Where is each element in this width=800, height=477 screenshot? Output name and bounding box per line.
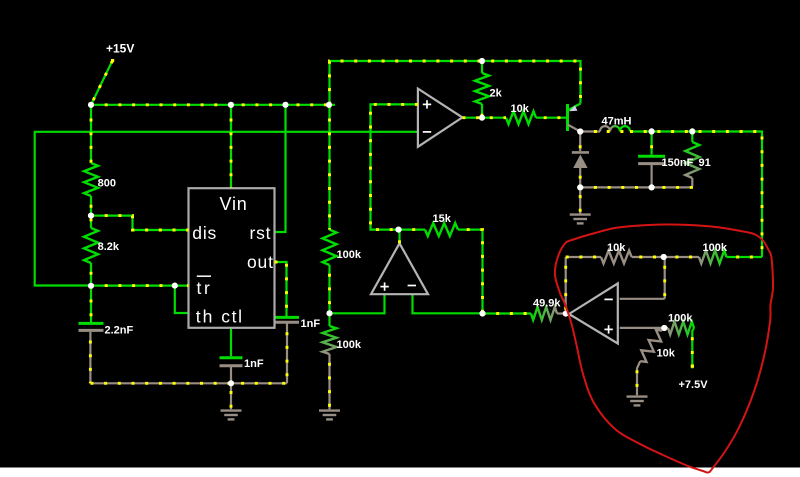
svg-text:th: th (196, 307, 215, 327)
svg-text:91: 91 (699, 157, 711, 169)
svg-text:47mH: 47mH (602, 116, 632, 128)
svg-text:800: 800 (98, 178, 116, 190)
svg-text:100k: 100k (337, 249, 362, 261)
svg-text:10k: 10k (657, 348, 676, 360)
svg-text:dis: dis (192, 223, 217, 243)
svg-text:8.2k: 8.2k (98, 241, 120, 253)
svg-text:100k: 100k (337, 339, 362, 351)
svg-text:100k: 100k (668, 313, 693, 325)
svg-text:tr: tr (197, 278, 213, 298)
svg-text:Vin: Vin (220, 194, 248, 214)
svg-text:150nF: 150nF (662, 157, 694, 169)
svg-text:+7.5V: +7.5V (679, 379, 709, 391)
svg-text:out: out (247, 252, 274, 272)
svg-text:2.2nF: 2.2nF (105, 325, 134, 337)
svg-text:49.9k: 49.9k (533, 298, 561, 310)
svg-text:100k: 100k (703, 242, 728, 254)
svg-text:15k: 15k (433, 213, 452, 225)
svg-text:10k: 10k (607, 242, 626, 254)
svg-text:1nF: 1nF (301, 318, 321, 330)
svg-text:10k: 10k (511, 103, 530, 115)
svg-text:1nF: 1nF (244, 358, 264, 370)
svg-text:2k: 2k (490, 88, 503, 100)
svg-text:+15V: +15V (106, 42, 134, 56)
svg-text:rst: rst (250, 223, 272, 243)
svg-text:ctl: ctl (221, 307, 243, 327)
